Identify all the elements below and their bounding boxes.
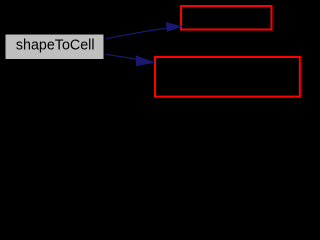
edge wire: shapeToCell -> top node <box>106 28 167 39</box>
node shapeToCell (current node, grey fill) <box>6 35 104 60</box>
edge wire: shapeToCell -> bottom node <box>105 54 138 59</box>
node bottom-right (red box, label hidden on transparent bg) <box>155 57 300 97</box>
arrowhead of edge to top node <box>166 23 181 32</box>
svg-text:shapeToCell: shapeToCell <box>16 38 95 54</box>
node top-right (red box, label hidden on transparent bg) <box>181 6 272 30</box>
arrowhead of edge to bottom node <box>136 56 153 66</box>
